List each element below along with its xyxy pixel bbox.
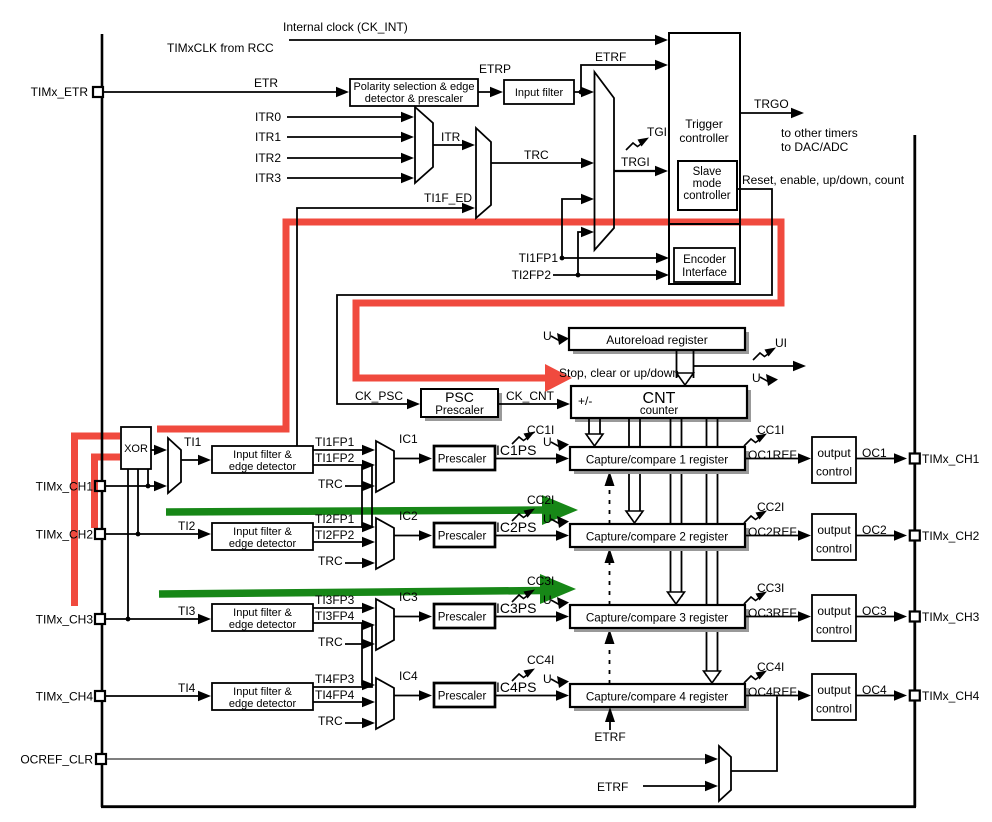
annotation red arrowhead into counter [545,364,572,392]
pad TIMx_CH4 [95,691,105,701]
block output control 2 [812,514,856,560]
svg-text:TI2FP2: TI2FP2 [512,268,552,282]
svg-text:TIMx_CH4: TIMx_CH4 [36,690,94,704]
svg-text:TRC: TRC [318,554,343,568]
wire TI4FP3 crossover up [313,625,372,687]
svg-text:UI: UI [775,336,787,350]
svg-text:TI2: TI2 [178,519,196,533]
svg-text:ITR2: ITR2 [255,151,281,165]
svg-text:IC2PS: IC2PS [496,519,536,535]
block capture/compare 3 register [574,609,749,632]
wire TI1FP2 crossover down [313,465,368,527]
block prescaler PSC [425,393,502,421]
event arrow CC3I left [512,590,535,603]
svg-text:+/-: +/- [578,394,592,408]
wire TRC channel 3 [345,643,367,645]
event arrow CC4I left [512,669,535,682]
svg-text:TRC: TRC [318,477,343,491]
svg-text:U: U [543,672,552,686]
bus counter to capture/compare 2 [628,418,630,516]
svg-text:ETRF: ETRF [595,50,626,64]
block capture/compare 4 register [574,688,749,711]
wire XOR input from CH2 [137,469,139,534]
svg-text:output: output [817,523,851,537]
mux IC3 selection [376,599,394,650]
wire TI2FP2 to encoder interface [553,274,661,276]
block encoder interface outer [669,224,740,284]
svg-text:CK_CNT: CK_CNT [506,389,555,403]
svg-text:output: output [817,446,851,460]
svg-text:Prescaler: Prescaler [438,531,487,543]
wire IC1PS [495,458,561,460]
svg-text:controller: controller [679,131,728,145]
wire CK_CNT [498,403,562,405]
wire OC3 [856,616,899,618]
svg-text:TI4FP3: TI4FP3 [315,672,355,686]
event arrow CC2I right [744,511,767,524]
wire IC1 to prescaler [394,458,424,460]
svg-text:TRGI: TRGI [621,155,650,169]
wire TI1 to input filter 1 [181,459,203,461]
svg-text:TI1FP1: TI1FP1 [519,251,559,265]
block capture/compare 2 register [574,528,749,551]
svg-text:IC4: IC4 [399,669,418,683]
wire OC4REF [745,695,803,697]
svg-text:ETRP: ETRP [479,62,511,76]
wire IC2 to prescaler [394,535,424,537]
svg-text:OC1: OC1 [862,446,887,460]
pad TIMx_CH3 right [910,612,920,622]
block output control 4 [812,674,856,720]
svg-text:Capture/compare 3 register: Capture/compare 3 register [586,612,728,625]
svg-text:OC3: OC3 [862,604,887,618]
svg-text:mode: mode [693,178,722,190]
svg-text:TRGO: TRGO [754,97,789,111]
bottom chip border wire [101,805,916,808]
junction ETRF branch [579,90,584,95]
svg-text:Input filter &: Input filter & [233,686,292,698]
svg-text:Internal clock (CK_INT): Internal clock (CK_INT) [283,20,408,34]
block input filter [504,80,574,104]
svg-text:ITR1: ITR1 [255,130,281,144]
svg-text:PSC: PSC [445,389,474,405]
block input filter & edge detector 1 [212,446,313,473]
svg-text:Capture/compare 2 register: Capture/compare 2 register [586,531,728,544]
svg-text:CC4I: CC4I [527,653,554,667]
wire TI1F_ED [297,208,467,446]
svg-text:TIMx_CH3: TIMx_CH3 [36,613,94,627]
event arrow UI [753,348,776,361]
dashed wire capture/compare 3 to 2 [609,555,611,605]
wire IC4 to prescaler [394,695,424,697]
svg-text:control: control [816,542,852,556]
svg-text:OC2: OC2 [862,523,887,537]
svg-text:IC1PS: IC1PS [496,442,536,458]
wire TI2FP1 crossover up [313,465,372,527]
wire TIMx_CH2 input [106,533,203,535]
svg-text:detector & prescaler: detector & prescaler [365,93,464,105]
block XOR gate [121,427,151,469]
mux TRC selection [476,128,491,218]
annotation red path XOR to trigger loop [157,222,781,429]
svg-text:ETRF: ETRF [594,730,625,744]
block polarity selection & edge detector & prescaler [350,79,478,106]
svg-text:TIMx_CH1: TIMx_CH1 [922,452,980,466]
annotation red wire TIMx_CH3 to XOR [75,436,121,606]
svg-text:TI3FP4: TI3FP4 [315,609,355,623]
svg-text:Prescaler: Prescaler [435,405,484,417]
event arrow CC3I right [744,592,767,605]
pad TIMx_CH1 right [910,454,920,464]
wire IC4PS [495,695,561,697]
block capture/compare 1 register [574,451,749,474]
svg-text:OC3REF: OC3REF [748,606,797,620]
block encoder interface [674,248,735,282]
wire OCREF_CLR [107,758,711,760]
svg-text:to other timers: to other timers [781,126,858,140]
mux IC1 selection [376,441,394,492]
block output control 1 [812,437,856,483]
right chip border wire [913,135,916,807]
svg-text:Input filter &: Input filter & [233,607,292,619]
wire TI4FP4 [313,701,367,703]
svg-text:TRC: TRC [318,714,343,728]
mux TI1 selection [168,438,181,493]
svg-text:TIMx_CH1: TIMx_CH1 [36,480,94,494]
wire ETRF from input filter to trigger controller [574,65,660,92]
svg-text:control: control [816,465,852,479]
svg-text:Prescaler: Prescaler [438,691,487,703]
svg-text:TI4: TI4 [178,681,196,695]
svg-text:Reset, enable, up/down, count: Reset, enable, up/down, count [742,173,905,187]
svg-text:U: U [752,371,761,385]
svg-text:XOR: XOR [124,443,148,455]
wire IC3PS [495,616,561,618]
svg-text:TIMx_CH4: TIMx_CH4 [922,689,980,703]
wire OC2REF [745,535,803,537]
svg-text:to DAC/ADC: to DAC/ADC [781,140,849,154]
svg-text:Capture/compare 4 register: Capture/compare 4 register [586,691,728,704]
svg-text:Interface: Interface [682,267,727,279]
svg-text:Encoder: Encoder [683,254,726,266]
svg-text:output: output [817,683,851,697]
pad TIMx_ETR [93,87,103,97]
block prescaler channel 3 [434,604,495,628]
wire OCREF clear mux output [731,697,777,772]
wire TI2FP2 [313,541,367,543]
svg-text:CC4I: CC4I [757,660,784,674]
svg-text:TIMx_CH2: TIMx_CH2 [922,529,980,543]
block slave mode controller [678,161,737,210]
svg-text:Prescaler: Prescaler [438,612,487,624]
svg-text:Autoreload register: Autoreload register [606,333,707,347]
svg-text:output: output [817,604,851,618]
wire TIMx_CH1 input [106,485,160,487]
wire TI2FP2 branch to TRGI mux [578,232,586,275]
pad TIMx_CH4 right [910,691,920,701]
svg-text:ITR3: ITR3 [255,171,281,185]
svg-text:TI1FP2: TI1FP2 [315,451,355,465]
event arrow CC1I right [744,434,767,447]
annotation green arrow channel 3 [159,591,543,595]
svg-text:controller: controller [683,190,730,202]
svg-text:Input filter &: Input filter & [233,526,292,538]
svg-text:OC4REF: OC4REF [748,685,797,699]
wire TRC channel 1 [345,485,367,487]
wire ITR1 [287,136,406,138]
junction TI2FP2 [576,273,581,278]
svg-text:TI1FP1: TI1FP1 [315,435,355,449]
svg-text:TIMx_CH3: TIMx_CH3 [922,610,980,624]
wire TRGO [740,112,796,114]
annotation green arrow channel 2 [166,510,545,512]
svg-text:OC1REF: OC1REF [748,448,797,462]
svg-text:U: U [543,329,552,343]
event arrow CC2I left [512,509,535,522]
bus autoreload to counter [676,350,678,378]
svg-text:TIMxCLK from RCC: TIMxCLK from RCC [167,41,274,55]
bus counter to capture/compare 3 [670,418,672,597]
svg-text:Capture/compare 1 register: Capture/compare 1 register [586,454,728,467]
svg-text:ITR0: ITR0 [255,110,281,124]
block prescaler channel 4 [434,683,495,707]
svg-text:control: control [816,702,852,716]
wire OC2 [856,535,899,537]
wire XOR output to TI1 mux [151,449,160,451]
svg-text:Slave: Slave [693,166,722,178]
block prescaler channel 2 [434,523,495,547]
wire ETR [104,91,341,93]
wire TRC channel 4 [345,722,367,724]
wire TRC to TRGI mux [491,162,586,164]
mux TRGI selection [595,72,615,250]
svg-text:counter: counter [640,405,679,417]
wire TI3FP3 [313,607,367,609]
svg-text:ITR: ITR [441,130,461,144]
wire slave mode controller to prescaler clock CK_PSC [337,189,772,404]
dashed wire capture/compare 2 to 1 [609,478,611,524]
svg-text:TRC: TRC [318,635,343,649]
mux OCREF clear selection [719,746,731,801]
svg-text:U: U [543,435,552,449]
wire CK_INT to trigger controller [289,39,660,41]
wire ETRF to capture/compare 4 [609,714,611,730]
svg-text:edge detector: edge detector [229,698,297,710]
wire TI1FP1 [313,449,367,451]
svg-text:Input filter: Input filter [515,87,564,99]
svg-text:CK_PSC: CK_PSC [355,389,403,403]
wire TI1FP1 branch to TRGI mux [562,199,586,258]
svg-text:CC3I: CC3I [757,581,784,595]
svg-text:TI1F_ED: TI1F_ED [424,191,472,205]
block autoreload register [573,332,749,354]
wire UI update event [694,365,799,367]
wire IC2PS [495,535,561,537]
annotation red wire TIMx_CH2 to XOR [95,457,121,528]
bus counter to capture/compare 4 [706,418,708,676]
svg-text:TIMx_CH2: TIMx_CH2 [36,528,94,542]
wire TI3FP4 crossover down [313,623,368,685]
wire TI1FP1 to encoder interface [560,257,661,259]
block prescaler channel 1 [434,446,495,470]
svg-text:ETRF: ETRF [597,780,628,794]
wire XOR input from CH3 [127,469,129,619]
wire OC1 [856,458,899,460]
wire IC3 to prescaler [394,616,424,618]
block output control 3 [812,595,856,641]
svg-text:Input filter &: Input filter & [233,449,292,461]
svg-text:OC2REF: OC2REF [748,525,797,539]
svg-text:IC4PS: IC4PS [496,679,536,695]
block input filter & edge detector 4 [212,683,313,710]
svg-text:IC1: IC1 [399,432,418,446]
wire ITR3 [287,177,406,179]
wire TRC channel 2 [345,562,367,564]
wire OC3REF [745,616,803,618]
mux IC2 selection [376,518,394,569]
pad TIMx_CH2 [95,529,105,539]
svg-text:CC2I: CC2I [757,500,784,514]
wire ITR2 [287,157,406,159]
svg-text:Stop, clear or up/down: Stop, clear or up/down [559,366,679,380]
mux ITR selection [415,107,433,183]
event arrow TGI [626,138,649,151]
dashed wire capture/compare 4 to 3 [609,636,611,684]
svg-text:TI4FP4: TI4FP4 [315,688,355,702]
svg-text:TI1: TI1 [184,435,202,449]
svg-text:control: control [816,623,852,637]
svg-text:TI2FP2: TI2FP2 [315,528,355,542]
svg-text:OC4: OC4 [862,683,887,697]
event arrow CC1I left [512,432,535,445]
svg-text:TRC: TRC [524,148,549,162]
wire TIMx_CH4 input [106,695,203,697]
block trigger controller U1 [669,33,740,224]
wire ETRP [478,91,495,93]
wire OC4 [856,695,899,697]
pad TIMx_CH1 [95,481,105,491]
svg-text:edge detector: edge detector [229,461,297,473]
svg-text:OCREF_CLR: OCREF_CLR [20,753,93,767]
junction TI1FP1 [560,256,565,261]
svg-text:IC3PS: IC3PS [496,600,536,616]
svg-text:ETR: ETR [254,76,278,90]
wire ITR [433,144,467,146]
wire XOR input from CH1 [147,469,149,486]
block input filter & edge detector 2 [212,523,313,550]
svg-text:CC1I: CC1I [757,423,784,437]
svg-text:TI3: TI3 [178,604,196,618]
left chip border wire [101,34,104,807]
svg-text:Prescaler: Prescaler [438,454,487,466]
pad TIMx_CH3 [95,614,105,624]
svg-text:Polarity selection & edge: Polarity selection & edge [353,81,474,93]
block counter CNT [575,390,751,422]
block input filter & edge detector 3 [212,604,313,631]
svg-text:TIMx_ETR: TIMx_ETR [31,85,89,99]
wire ETRF branch into TRGI mux [581,91,587,93]
wire TIMx_CH3 input [106,618,203,620]
svg-text:edge detector: edge detector [229,538,297,550]
bus counter to capture/compare 1 [588,418,590,439]
wire ETRF bottom [643,785,711,787]
wire ITR0 [287,116,406,118]
mux IC4 selection [376,678,394,729]
svg-text:edge detector: edge detector [229,619,297,631]
svg-text:Trigger: Trigger [685,117,723,131]
svg-text:TGI: TGI [647,125,667,139]
pad OCREF_CLR [96,754,106,764]
wire TRGI [614,170,660,172]
event arrow CC4I right [744,671,767,684]
wire OC1REF [745,458,803,460]
pad TIMx_CH2 right [910,531,920,541]
